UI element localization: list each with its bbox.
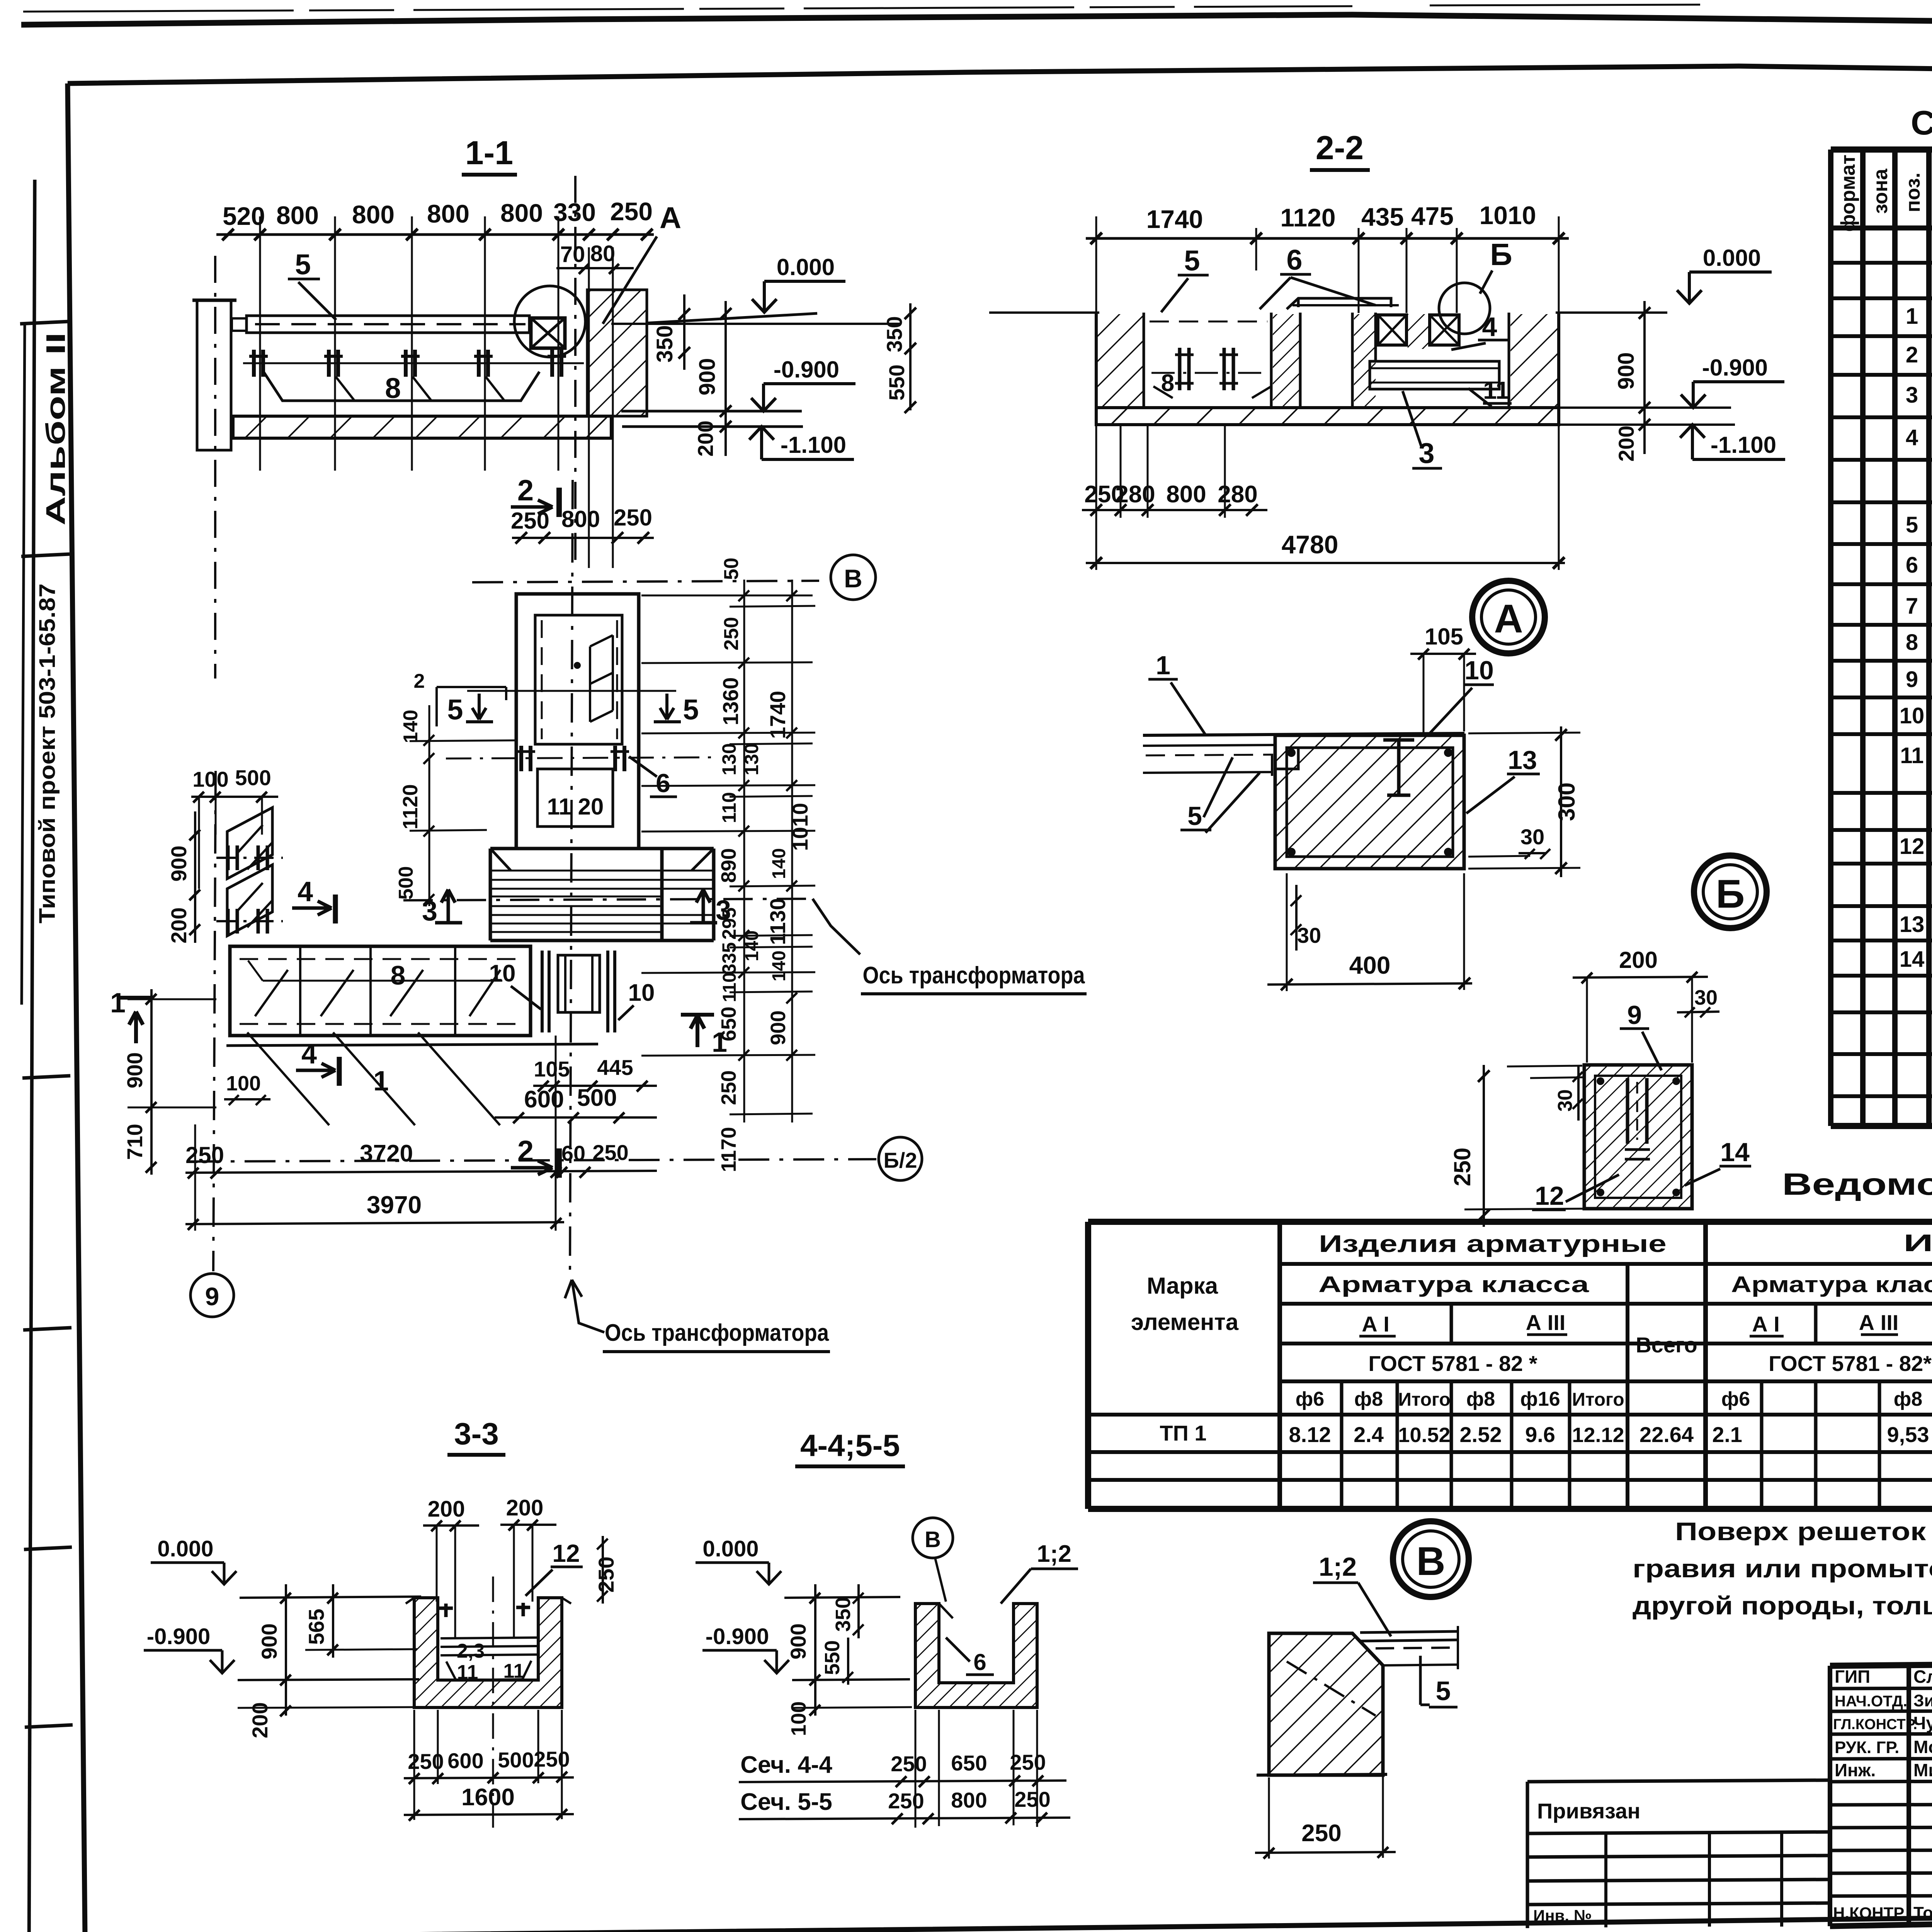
- svg-text:475: 475: [1411, 202, 1454, 230]
- detail circle A: [514, 286, 585, 357]
- svg-text:200: 200: [1619, 947, 1658, 973]
- svg-text:формат: формат: [1837, 155, 1859, 232]
- svg-text:12.12: 12.12: [1572, 1423, 1624, 1447]
- svg-text:1010: 1010: [1480, 201, 1536, 230]
- svg-text:250: 250: [511, 508, 549, 534]
- svg-text:11: 11: [457, 1661, 478, 1684]
- anchor tubes 12 in pit 3-3: [439, 1603, 530, 1617]
- svg-text:900: 900: [257, 1623, 281, 1659]
- svg-text:2.52: 2.52: [1460, 1422, 1502, 1447]
- svg-text:4: 4: [1482, 312, 1497, 342]
- svg-text:А І: А І: [1752, 1312, 1780, 1336]
- svg-text:520: 520: [223, 202, 265, 230]
- detail A circle: [1472, 581, 1545, 653]
- ground lines: [989, 311, 1667, 314]
- svg-text:250: 250: [610, 197, 653, 226]
- left axis vertical 9: [213, 771, 216, 1271]
- svg-text:11: 11: [1483, 376, 1509, 404]
- svg-text:250: 250: [1301, 1820, 1341, 1847]
- svg-text:4780: 4780: [1282, 530, 1338, 559]
- svg-text:6: 6: [656, 769, 670, 798]
- svg-text:100: 100: [226, 1072, 261, 1095]
- svg-text:Зильбертов: Зильбертов: [1913, 1691, 1932, 1710]
- channel bars below neck: [542, 951, 549, 1032]
- svg-text:ГОСТ 5781 - 82 *: ГОСТ 5781 - 82 *: [1368, 1351, 1537, 1376]
- structure 4-4: [915, 1604, 1037, 1708]
- svg-text:70: 70: [560, 242, 585, 267]
- svg-text:250: 250: [888, 1789, 924, 1813]
- anchor bolts: [254, 350, 561, 377]
- привязан box: [1527, 1780, 1830, 1928]
- staff table rows: [1830, 1688, 1932, 1896]
- svg-text:10: 10: [628, 980, 655, 1006]
- svg-text:2: 2: [414, 670, 425, 692]
- svg-text:400: 400: [1349, 951, 1391, 979]
- svg-text:2-2: 2-2: [1316, 129, 1364, 167]
- svg-text:250: 250: [592, 1140, 628, 1165]
- block Б hatched: [1584, 1065, 1692, 1209]
- bolts on left element: [216, 858, 283, 921]
- left wing bar: [230, 946, 531, 1036]
- plan tall wing walls: [516, 594, 639, 849]
- svg-text:0.000: 0.000: [157, 1536, 213, 1561]
- svg-text:200: 200: [1614, 425, 1638, 461]
- white notch under panel: [1275, 748, 1298, 769]
- slab at right of В: [1360, 1631, 1459, 1641]
- axis of transformer horizontal: [403, 899, 813, 900]
- svg-text:890: 890: [717, 848, 740, 883]
- steel table row lines: [1088, 1264, 1932, 1480]
- circle В small: [913, 1518, 953, 1558]
- right dim ladder horizontals: [641, 595, 815, 1114]
- anchor bolts row in tall wing: [446, 757, 714, 759]
- svg-text:14: 14: [1900, 947, 1925, 972]
- svg-text:250: 250: [1014, 1787, 1050, 1811]
- svg-text:10: 10: [1464, 656, 1494, 685]
- svg-text:11: 11: [1900, 743, 1923, 768]
- svg-text:110: 110: [719, 972, 740, 1002]
- svg-text:Ось трансформатора: Ось трансформатора: [605, 1320, 829, 1346]
- svg-text:9: 9: [1627, 1000, 1642, 1030]
- svg-text:Чупахин: Чупахин: [1913, 1713, 1932, 1733]
- section 5-5 cut line: [467, 690, 676, 692]
- svg-text:710: 710: [122, 1124, 147, 1160]
- svg-text:565: 565: [304, 1609, 328, 1645]
- wing bar lower outline extension: [226, 1044, 598, 1046]
- svg-text:Сеч. 5-5: Сеч. 5-5: [740, 1789, 832, 1815]
- svg-text:6: 6: [973, 1649, 986, 1675]
- svg-text:гравия или промытого гранитног: гравия или промытого гранитного щебня, л…: [1633, 1554, 1932, 1583]
- ground line right of 1-1: [647, 313, 817, 323]
- svg-text:800: 800: [352, 200, 395, 229]
- svg-text:5: 5: [1906, 512, 1918, 537]
- svg-text:12: 12: [1535, 1181, 1564, 1211]
- svg-text:Альбом II: Альбом II: [41, 332, 71, 526]
- svg-text:Сланский: Сланский: [1913, 1667, 1932, 1687]
- svg-text:1: 1: [373, 1066, 389, 1097]
- svg-text:Поверх решеток над маслоприемн: Поверх решеток над маслоприемником насып…: [1675, 1517, 1932, 1546]
- inner frame left: [68, 83, 85, 1932]
- svg-text:Изделия арматурные: Изделия арматурные: [1319, 1231, 1667, 1257]
- svg-text:800: 800: [427, 199, 469, 228]
- anchor tee in block: [1383, 740, 1414, 795]
- svg-text:-0.900: -0.900: [147, 1624, 210, 1649]
- block В hatched: [1269, 1633, 1383, 1775]
- svg-text:-1.100: -1.100: [1711, 432, 1776, 458]
- svg-text:1740: 1740: [1146, 205, 1203, 233]
- svg-text:4: 4: [298, 876, 313, 907]
- svg-text:Моралев: Моралев: [1913, 1737, 1932, 1757]
- svg-text:ГОСТ 5781 - 82*: ГОСТ 5781 - 82*: [1769, 1351, 1932, 1376]
- svg-text:ф6: ф6: [1721, 1388, 1750, 1410]
- svg-text:3-3: 3-3: [454, 1417, 499, 1451]
- svg-text:2,3: 2,3: [457, 1640, 485, 1662]
- svg-text:1-1: 1-1: [465, 134, 513, 172]
- svg-text:1;2: 1;2: [1319, 1552, 1357, 1582]
- svg-text:Марка: Марка: [1147, 1273, 1218, 1299]
- svg-text:5: 5: [683, 694, 699, 726]
- svg-text:250: 250: [891, 1752, 927, 1776]
- left column: [197, 300, 231, 450]
- svg-text:350: 350: [652, 325, 677, 363]
- svg-text:8.12: 8.12: [1289, 1422, 1331, 1447]
- svg-text:2.4: 2.4: [1354, 1422, 1384, 1447]
- frame bottom: [62, 1909, 1932, 1932]
- svg-text:ф8: ф8: [1466, 1388, 1495, 1410]
- svg-text:Привязан: Привязан: [1537, 1799, 1640, 1823]
- svg-text:другой породы, толщина слоя не: другой породы, толщина слоя не менее 250…: [1633, 1591, 1932, 1620]
- svg-text:500: 500: [498, 1748, 534, 1772]
- pit liner trapezoid: [264, 372, 539, 401]
- ground level line right: [611, 323, 900, 325]
- svg-text:А: А: [660, 201, 681, 235]
- svg-text:1740: 1740: [765, 691, 790, 739]
- svg-text:200: 200: [506, 1495, 544, 1520]
- svg-text:5: 5: [447, 694, 463, 726]
- svg-text:1600: 1600: [461, 1784, 515, 1811]
- svg-text:900: 900: [1614, 352, 1639, 390]
- svg-text:130: 130: [718, 743, 740, 775]
- svg-text:900: 900: [786, 1623, 810, 1659]
- svg-text:295: 295: [718, 907, 740, 939]
- transformer rails band: [490, 871, 714, 932]
- grid line Б/2: [190, 1159, 876, 1162]
- svg-text:Н.КОНТР.: Н.КОНТР.: [1833, 1904, 1906, 1922]
- svg-text:Толмачева: Толмачева: [1913, 1903, 1932, 1922]
- svg-text:500: 500: [577, 1085, 617, 1111]
- opening1 internals: [1150, 321, 1267, 323]
- svg-text:5: 5: [1436, 1676, 1451, 1706]
- svg-text:800: 800: [951, 1788, 987, 1812]
- svg-text:800: 800: [276, 201, 319, 230]
- svg-text:600: 600: [447, 1748, 483, 1773]
- svg-text:300: 300: [1554, 782, 1580, 821]
- svg-text:900: 900: [122, 1052, 147, 1088]
- svg-text:435: 435: [1361, 202, 1404, 231]
- svg-text:8: 8: [385, 372, 401, 404]
- central vertical axis: [570, 480, 573, 1276]
- svg-text:250: 250: [185, 1142, 224, 1168]
- svg-text:В: В: [925, 1527, 941, 1552]
- svg-text:Итого: Итого: [1572, 1389, 1624, 1410]
- svg-text:7: 7: [1906, 594, 1918, 619]
- svg-text:12: 12: [552, 1539, 580, 1567]
- channel in pit 3-3: [440, 1638, 537, 1655]
- svg-text:РУК. ГР.: РУК. ГР.: [1835, 1738, 1899, 1757]
- spec table grid verticals: [1831, 150, 1932, 1126]
- svg-text:650: 650: [717, 1007, 740, 1041]
- svg-text:900: 900: [167, 845, 191, 881]
- svg-text:1130: 1130: [765, 898, 790, 945]
- svg-text:22.64: 22.64: [1639, 1422, 1694, 1447]
- svg-text:А І: А І: [1362, 1312, 1389, 1336]
- svg-text:445: 445: [597, 1055, 633, 1080]
- svg-text:2: 2: [517, 1135, 534, 1168]
- svg-text:Арматура класса: Арматура класса: [1731, 1272, 1932, 1297]
- svg-text:3: 3: [1906, 383, 1918, 408]
- svg-text:900: 900: [695, 358, 720, 396]
- frame top heavy line: [21, 15, 1932, 32]
- svg-text:6: 6: [1286, 244, 1302, 276]
- svg-text:100: 100: [192, 767, 228, 791]
- svg-text:0.000: 0.000: [1703, 245, 1761, 271]
- svg-text:800: 800: [561, 506, 600, 532]
- svg-text:В: В: [844, 564, 862, 593]
- svg-text:А ІІІ: А ІІІ: [1526, 1310, 1566, 1335]
- right abutment hatched: [587, 290, 647, 416]
- svg-text:8: 8: [391, 960, 406, 990]
- svg-text:200: 200: [428, 1497, 465, 1522]
- opening3 grating squares: [1378, 315, 1406, 345]
- svg-text:350: 350: [882, 316, 906, 352]
- svg-text:6: 6: [1906, 553, 1918, 578]
- svg-text:9: 9: [205, 1282, 219, 1311]
- svg-text:ф6: ф6: [1296, 1388, 1324, 1410]
- svg-text:ф8: ф8: [1894, 1388, 1922, 1410]
- plate symbol in tall wing: [590, 635, 613, 722]
- floor slab 2-2: [1096, 408, 1559, 425]
- svg-text:4-4;5-5: 4-4;5-5: [800, 1428, 900, 1463]
- svg-text:Б/2: Б/2: [884, 1148, 917, 1172]
- slab panel lines left: [1143, 733, 1464, 735]
- lower neck opening: [537, 769, 613, 827]
- svg-text:Сеч. 4-4: Сеч. 4-4: [740, 1752, 832, 1778]
- grid circle 9: [190, 1274, 234, 1317]
- svg-text:250: 250: [1010, 1750, 1046, 1774]
- svg-text:3970: 3970: [367, 1191, 422, 1219]
- left element parallelograms: [227, 808, 272, 879]
- svg-text:140: 140: [742, 930, 762, 961]
- svg-text:НАЧ.ОТД.: НАЧ.ОТД.: [1835, 1693, 1907, 1710]
- svg-text:1: 1: [110, 988, 126, 1019]
- svg-text:250: 250: [720, 617, 743, 651]
- svg-text:ф8: ф8: [1354, 1388, 1383, 1410]
- svg-text:50: 50: [720, 558, 743, 580]
- svg-text:550: 550: [884, 364, 909, 400]
- grid verticals: [260, 216, 558, 471]
- svg-text:Всего: Всего: [1636, 1333, 1697, 1357]
- title block bottom: [1830, 1910, 1932, 1926]
- svg-text:1120: 1120: [1280, 203, 1335, 232]
- steel table verticals: [1280, 1222, 1932, 1509]
- svg-text:Инв. №: Инв. №: [1533, 1906, 1592, 1925]
- svg-text:13: 13: [1508, 745, 1537, 775]
- svg-text:105: 105: [534, 1057, 570, 1081]
- svg-text:200: 200: [167, 907, 191, 943]
- svg-text:110: 110: [718, 792, 740, 823]
- detail В circle: [1393, 1521, 1469, 1597]
- svg-text:Миронова: Миронова: [1913, 1760, 1932, 1780]
- svg-text:13: 13: [1900, 912, 1925, 937]
- concrete block A hatched: [1275, 735, 1464, 869]
- svg-text:900: 900: [767, 1010, 790, 1045]
- svg-text:14: 14: [1720, 1138, 1750, 1167]
- bottom axis label: [565, 1280, 604, 1332]
- svg-text:9.6: 9.6: [1525, 1422, 1555, 1447]
- svg-text:5: 5: [1187, 801, 1202, 831]
- channel 11: [1370, 361, 1499, 389]
- svg-text:130: 130: [741, 743, 762, 775]
- svg-text:1360: 1360: [718, 677, 743, 726]
- left margin rail: [29, 180, 35, 1932]
- floor slab hatched: [233, 416, 611, 438]
- svg-text:Итого: Итого: [1398, 1389, 1450, 1410]
- svg-text:8: 8: [1161, 370, 1174, 396]
- svg-text:Ведомость расхода стали на эле: Ведомость расхода стали на элемент, кг: [1782, 1167, 1932, 1201]
- axis vertical 1-1: [574, 176, 577, 570]
- svg-text:Б: Б: [1490, 237, 1512, 272]
- callout circle Б on 2-2: [1439, 283, 1490, 334]
- channel bars inside: [1628, 1078, 1647, 1144]
- svg-text:140: 140: [769, 951, 789, 981]
- svg-text:650: 650: [951, 1751, 987, 1775]
- level lines right: [621, 411, 803, 427]
- svg-text:250: 250: [1449, 1148, 1475, 1186]
- svg-text:280: 280: [1218, 481, 1257, 508]
- svg-text:0.000: 0.000: [702, 1536, 759, 1561]
- wall hatches: [1098, 314, 1143, 408]
- grating square with X: [531, 318, 565, 348]
- svg-text:5: 5: [295, 248, 311, 281]
- svg-text:8: 8: [1906, 630, 1918, 655]
- svg-text:1120: 1120: [399, 784, 422, 829]
- svg-text:30: 30: [1297, 923, 1321, 947]
- svg-text:0.000: 0.000: [777, 254, 835, 280]
- svg-text:9: 9: [1906, 667, 1918, 692]
- svg-text:4: 4: [1906, 425, 1918, 450]
- svg-text:500: 500: [395, 866, 417, 900]
- svg-text:-0.900: -0.900: [706, 1624, 769, 1649]
- svg-text:2: 2: [517, 474, 534, 507]
- svg-text:800: 800: [1166, 481, 1206, 508]
- grid circle В: [831, 555, 876, 600]
- svg-text:3720: 3720: [360, 1140, 413, 1167]
- svg-text:поз.: поз.: [1902, 173, 1924, 213]
- svg-text:-1.100: -1.100: [781, 432, 846, 458]
- svg-text:зона: зона: [1869, 168, 1892, 214]
- inner frame top: [68, 66, 1932, 83]
- leader A: [603, 236, 657, 324]
- svg-text:Спецификация элементов на прия: Спецификация элементов на приямок ТП1: [1911, 104, 1932, 142]
- svg-text:100: 100: [787, 1701, 810, 1736]
- detail Б circle: [1694, 855, 1767, 928]
- svg-text:800: 800: [500, 199, 543, 227]
- svg-text:500: 500: [235, 765, 271, 790]
- svg-text:250: 250: [717, 1070, 740, 1105]
- axis 3-3: [492, 1577, 494, 1828]
- svg-text:2: 2: [1906, 342, 1918, 367]
- svg-text:60: 60: [561, 1141, 585, 1165]
- ground line: [1257, 1774, 1387, 1775]
- svg-text:элемента: элемента: [1131, 1309, 1239, 1335]
- anchors line: [243, 362, 584, 364]
- svg-text:1;2: 1;2: [1037, 1541, 1071, 1567]
- svg-text:Изделия закладные: Изделия закладные: [1903, 1230, 1932, 1257]
- svg-text:Типовой проект 503-1-65.87: Типовой проект 503-1-65.87: [35, 583, 60, 923]
- svg-text:5: 5: [1184, 245, 1200, 277]
- spec table outer horizontals: [1831, 150, 1932, 1126]
- svg-text:105: 105: [1425, 624, 1463, 650]
- svg-text:-0.900: -0.900: [1702, 355, 1768, 381]
- svg-text:250: 250: [594, 1556, 618, 1592]
- svg-text:10.52: 10.52: [1398, 1423, 1450, 1447]
- svg-text:11: 11: [503, 1660, 525, 1682]
- element 6 roof over opening2: [1287, 298, 1391, 309]
- svg-text:1010: 1010: [788, 803, 812, 851]
- svg-text:Арматура класса: Арматура класса: [1318, 1272, 1589, 1297]
- frame top thin line: [23, 5, 1932, 12]
- svg-text:80: 80: [590, 241, 616, 266]
- svg-text:ГЛ.КОНСТР.: ГЛ.КОНСТР.: [1833, 1716, 1917, 1733]
- leaders to 1: [247, 1032, 500, 1125]
- svg-text:1170: 1170: [717, 1127, 740, 1172]
- svg-text:600: 600: [524, 1086, 564, 1113]
- svg-text:30: 30: [1520, 825, 1544, 849]
- svg-text:9,53: 9,53: [1887, 1422, 1929, 1447]
- title block outer top: [1830, 1658, 1932, 1666]
- svg-text:10: 10: [1900, 703, 1925, 728]
- dim line 1-1 top: [216, 233, 654, 236]
- svg-text:ф16: ф16: [1520, 1388, 1560, 1410]
- svg-text:ГИП: ГИП: [1835, 1667, 1870, 1687]
- svg-text:В: В: [1416, 1539, 1445, 1584]
- svg-text:ТП 1: ТП 1: [1160, 1421, 1206, 1445]
- svg-text:-0.900: -0.900: [774, 357, 839, 383]
- svg-text:Инж.: Инж.: [1835, 1760, 1876, 1780]
- svg-text:11 20: 11 20: [547, 794, 604, 820]
- slab panel: [247, 316, 529, 333]
- wide band top: [490, 847, 714, 850]
- svg-text:2.1: 2.1: [1712, 1422, 1742, 1447]
- grid line В horizontal: [472, 581, 819, 582]
- svg-text:250: 250: [614, 505, 652, 531]
- leader to axis label: [813, 899, 860, 954]
- svg-text:335: 335: [718, 942, 740, 974]
- spec header bottom: [1831, 226, 1932, 231]
- svg-text:140: 140: [769, 848, 789, 879]
- svg-text:А: А: [1494, 597, 1523, 641]
- steel table outer: [1088, 1222, 1932, 1509]
- svg-text:1: 1: [1156, 651, 1170, 680]
- spec row lines: [1831, 263, 1932, 1096]
- svg-text:10: 10: [489, 960, 516, 987]
- svg-text:1: 1: [1906, 304, 1918, 329]
- svg-text:4: 4: [301, 1039, 317, 1070]
- svg-text:140: 140: [400, 710, 422, 743]
- outer walls 2-2: [1096, 313, 1559, 408]
- svg-text:Б: Б: [1716, 872, 1745, 917]
- svg-text:А ІІІ: А ІІІ: [1859, 1310, 1899, 1335]
